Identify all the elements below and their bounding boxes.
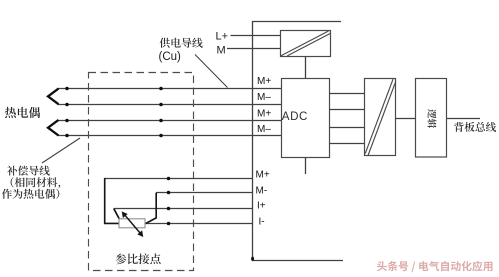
wire thermocouple 1 minus [58,104,282,106]
wire isolator to logic box [396,118,416,120]
power supply isolation box [281,31,331,57]
wire module left rail with top and bottom stubs [253,22,344,261]
svg-text:M: M [217,44,226,56]
ADC converter box U1 [282,79,330,158]
wire M+ down-link to compensation resistor left [105,178,120,224]
resistor RC compensation element [119,219,145,228]
junction blob at rail bottom corner [251,257,254,261]
wire ADC to isolator link 1 [330,93,365,95]
dashed box reference junction region [89,73,194,271]
label 供电导线 supply conductor [160,38,203,48]
svg-text:M–: M– [257,124,271,135]
wire thermocouple 2 minus [58,135,282,137]
wire M supply [227,48,281,50]
wire L+ supply [231,35,281,37]
label 热电偶 thermocouple [5,107,40,118]
label 参比接点 reference junction [116,254,161,265]
junction dots column 2 [159,87,163,91]
galvanic isolator box [365,79,396,156]
logic box [416,79,447,158]
wire ADC to isolator link 4 [330,143,365,145]
wire ADC to isolator link 3 [330,127,365,129]
svg-text:M+: M+ [257,108,271,119]
thermocouple TC2 junction chevron [48,120,59,136]
wire thermocouple 1 plus [58,88,282,90]
wire M+ sense [105,178,252,180]
wire ADC ground stub [305,158,307,175]
wire power box to ADC [305,57,307,79]
thermocouple TC1 junction chevron [48,89,59,105]
wire I+ link to compensation resistor left [114,209,120,220]
svg-text:(Cu): (Cu) [159,51,182,63]
svg-text:I-: I- [259,216,265,227]
svg-text:I+: I+ [257,201,266,212]
svg-text:L+: L+ [216,30,229,42]
wire I+ current [114,208,253,210]
label 逻辑 logic (rotated 90) [428,109,437,128]
label （相同材料, compensation wire line2 [11,177,61,188]
svg-text:ADC: ADC [282,110,308,123]
wire logic box to backplane bus [447,118,481,120]
svg-text:M–: M– [257,92,271,103]
svg-text:M-: M- [256,185,268,196]
pointer line from compensation label to wires [42,138,80,163]
wire thermocouple 2 plus [58,120,282,122]
label 背板总线 backplane bus [454,122,496,132]
junction dots sense/current wires [167,177,171,181]
wire M- sense [156,192,252,194]
svg-text:M+: M+ [256,170,270,181]
label 作为热电偶） compensation wire line3 [2,189,60,199]
junction dots compensation-wire splice column 1 [65,87,69,91]
watermark 头条号 / 电气自动化应用 [377,261,493,272]
wire I- current [146,223,252,225]
svg-text:M+: M+ [257,76,271,87]
label 补偿导线 compensation wire line1 [7,166,50,176]
variable arrow across resistor (double-headed) [125,215,141,234]
wire ADC to isolator link 2 [330,109,365,111]
wire M- down-link to compensation resistor right [146,193,157,224]
pointer line from (Cu) label to wires [195,55,228,88]
